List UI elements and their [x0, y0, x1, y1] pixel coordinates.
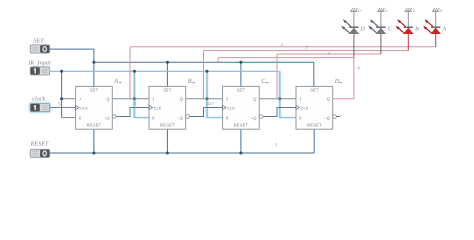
svg-text:B: B [415, 26, 419, 32]
ground symbol above LED C (net 0) [377, 8, 388, 13]
svg-text:Q: Q [327, 96, 330, 101]
svg-text:Q: Q [106, 96, 109, 101]
net number 2 [281, 42, 284, 47]
junction SET bus at FF B [166, 61, 169, 64]
JK flip-flop C (U3) [223, 86, 263, 129]
svg-text:~Q: ~Q [324, 115, 330, 120]
svg-text:Q: Q [253, 96, 256, 101]
switch clock (value 1, selected/highlighted) [28, 101, 53, 114]
junction JK drop at FF A J pin [60, 97, 63, 100]
svg-text:K: K [226, 115, 229, 120]
wire ~Q of FF A to CLK of FF B [116, 108, 149, 117]
JK flip-flop A (U1) [76, 86, 116, 129]
svg-text:J: J [299, 96, 301, 101]
svg-text:CLK: CLK [227, 105, 235, 110]
svg-text:K: K [299, 115, 302, 120]
wire JK drop to FF A J and K pins [62, 71, 76, 117]
svg-text:SET: SET [163, 88, 172, 93]
junction JK bus at drop C [206, 70, 209, 73]
svg-text:RESET: RESET [87, 122, 102, 127]
label JK_Input [28, 59, 51, 66]
svg-text:SET: SET [90, 88, 99, 93]
net number 4 [328, 51, 331, 56]
junction JK bus at drop B [133, 70, 136, 73]
label D of flip-flop [334, 78, 342, 85]
junction RESET bus at FF A [92, 152, 95, 155]
svg-text:SET: SET [237, 88, 246, 93]
wire ~Q stub of FF D (unconnected) [336, 116, 340, 118]
svg-text:SET: SET [33, 38, 44, 45]
wire Q of FF A to J of FF B [112, 98, 149, 100]
LED B [396, 11, 419, 50]
svg-text:RESET: RESET [234, 122, 249, 127]
ground symbol above LED D (net 0) [350, 8, 361, 13]
junction JK drop crosses Q wire (B) [133, 97, 136, 100]
svg-text:J: J [79, 96, 81, 101]
switch SET (value 0) [30, 45, 50, 53]
junction RESET bus at FF C [239, 152, 242, 155]
svg-text:D: D [334, 78, 340, 85]
wire JK drop to FF C K pin (highlighted) [207, 71, 223, 117]
LED D [341, 11, 365, 57]
svg-text:~Q: ~Q [177, 115, 183, 120]
wire SET net: toggle to bus and SET pins of U1-U4 [50, 49, 314, 86]
svg-text:C: C [261, 78, 266, 85]
svg-text:RESET: RESET [160, 122, 175, 127]
wire JK drop to FF B K pin (highlighted) [134, 71, 149, 117]
svg-text:K: K [79, 115, 82, 120]
svg-text:1117: 1117 [205, 101, 214, 106]
wire net 2: Q of FF A up to LED A line [130, 47, 436, 99]
switch RESET (value 0) [30, 149, 50, 157]
junction JK bus at x=61.6 [60, 70, 63, 73]
svg-text:J: J [152, 96, 154, 101]
svg-text:CLK: CLK [301, 105, 309, 110]
net number 1117 [205, 101, 214, 106]
svg-text:Q: Q [180, 96, 183, 101]
net number 3 [305, 45, 308, 50]
wire JK_Input bus [50, 70, 280, 72]
wire net 3: Q of FF B up to LED B line [204, 51, 409, 99]
junction SET bus at FF A [92, 61, 95, 64]
wire Q of FF C to J of FF D [259, 98, 296, 100]
LED A [423, 11, 446, 46]
net number 5 (clock net) [58, 101, 61, 106]
svg-text:RESET: RESET [307, 122, 322, 127]
svg-text:JK_Input: JK_Input [28, 59, 51, 66]
label A of flip-flop [113, 78, 121, 85]
label B of flip-flop [188, 78, 195, 85]
JK flip-flop D (U4) [296, 86, 336, 129]
label RESET input [30, 140, 49, 147]
net number 11 [133, 101, 138, 106]
label clock [32, 96, 45, 103]
net number 1 (RESET net) [275, 142, 278, 147]
wire Q of FF B to J of FF C [186, 98, 223, 100]
junction JK drop crosses Q wire (C) [206, 97, 209, 100]
label C of flip-flop [261, 78, 268, 85]
ground symbol above LED B (net 0) [405, 8, 416, 13]
wire JK drop to FF D K pin (highlighted) [280, 71, 296, 117]
ground symbol above LED A (net 0) [432, 8, 443, 13]
switch JK_Input (value 1) [30, 67, 50, 75]
wire net 6: Q of FF D up to LED D line [218, 58, 354, 99]
wire ~Q of FF B to CLK of FF C [189, 108, 222, 117]
junction RESET bus at FF B [166, 152, 169, 155]
svg-text:CLK: CLK [80, 105, 88, 110]
svg-text:11: 11 [133, 101, 138, 106]
junction SET bus at FF C [239, 61, 242, 64]
JK flip-flop B (U2) [149, 86, 189, 129]
label SET input [33, 38, 44, 45]
svg-text:SET: SET [310, 88, 319, 93]
svg-text:A: A [441, 26, 446, 32]
wire clock: toggle to FF A CLK [50, 107, 76, 109]
LED C [368, 11, 392, 54]
net number 6 [358, 65, 361, 70]
svg-text:A: A [113, 78, 118, 85]
svg-text:~Q: ~Q [251, 115, 257, 120]
svg-text:~Q: ~Q [104, 115, 110, 120]
wire net 4: Q of FF C up to LED C line [277, 54, 381, 99]
wire ~Q of FF C to CLK of FF D [263, 108, 296, 117]
svg-text:J: J [226, 96, 228, 101]
svg-text:CLK: CLK [154, 105, 162, 110]
svg-text:RESET: RESET [30, 140, 49, 147]
svg-text:B: B [188, 78, 192, 85]
svg-text:K: K [152, 115, 155, 120]
junction JK drop crosses Q wire (D) [278, 97, 281, 100]
wire RESET net: toggle to bus and RESET pins of U1-U4 [50, 129, 315, 153]
svg-text:D: D [359, 26, 365, 32]
